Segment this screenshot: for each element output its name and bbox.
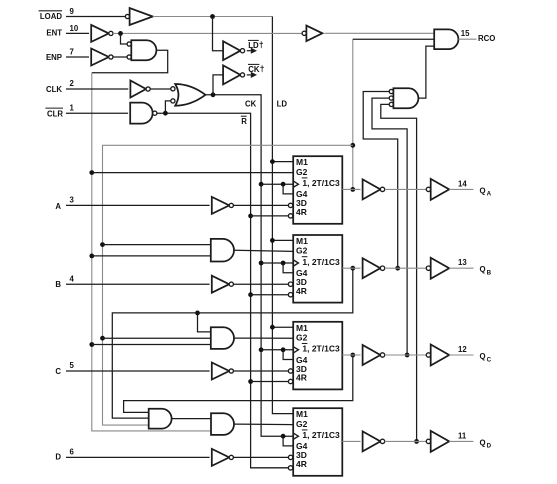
wire QB feedback xyxy=(112,268,352,418)
wire C input xyxy=(66,370,210,372)
wire FFA output xyxy=(342,188,360,190)
wire QD output xyxy=(449,440,473,442)
svg-text:4R: 4R xyxy=(296,373,307,383)
svg-text:G2: G2 xyxy=(296,419,308,429)
wire ENP to NAND xyxy=(113,56,127,58)
pin label G4 FFD xyxy=(296,441,308,451)
pin label 3D FFD xyxy=(296,450,307,460)
and gate U4 ENT*ENP (bubbled inputs) xyxy=(127,40,156,60)
buffer output QC (input bubble) xyxy=(426,345,449,366)
wire D input xyxy=(66,456,210,458)
pin label clock 1,2T/1C3 FFA xyxy=(294,178,340,188)
junction QA node xyxy=(350,187,355,192)
wire QC internal xyxy=(385,354,427,356)
wire R to 4R FFB xyxy=(251,294,289,296)
wire clock branch to G4 FFB xyxy=(283,263,293,273)
svg-text:6: 6 xyxy=(70,448,75,457)
wire R net xyxy=(157,113,288,468)
junction LD FFC xyxy=(270,325,275,330)
label CK-dagger xyxy=(248,64,265,74)
inverter data C xyxy=(212,363,234,380)
wire QA to U14 xyxy=(103,337,211,339)
junction T to AND QC xyxy=(89,342,94,347)
svg-text:, 2T/1C3: , 2T/1C3 xyxy=(307,257,340,267)
svg-text:LOAD: LOAD xyxy=(40,12,62,21)
bubble 4R FFC xyxy=(288,379,292,383)
wire B to 3D xyxy=(233,283,288,285)
svg-text:M1: M1 xyxy=(296,409,308,419)
pin 2 xyxy=(70,79,75,88)
junction R to 4R FFC xyxy=(248,379,253,384)
wire A to 3D xyxy=(233,204,288,206)
wire LD to M1 FFA xyxy=(272,161,293,163)
inverter U5 CLK xyxy=(130,81,150,98)
inverter internal QB xyxy=(363,258,385,278)
inverter U2 ENT xyxy=(91,25,113,42)
pin label G4 FFC xyxy=(296,355,308,365)
svg-text:B: B xyxy=(487,270,492,277)
pin label G4 FFB xyxy=(296,268,308,278)
svg-text:†: † xyxy=(260,64,265,74)
pin label clock 1,2T/1C3 FFC xyxy=(294,344,340,354)
junction T to G2 FFA xyxy=(89,170,94,175)
pin label G2 FFD xyxy=(296,419,308,429)
svg-text:5: 5 xyxy=(70,361,75,370)
wire decode input QC xyxy=(372,98,407,355)
label QA xyxy=(480,186,492,197)
junction CK to CK-dagger xyxy=(211,92,216,97)
label C xyxy=(55,367,61,376)
inverter data D xyxy=(212,449,234,466)
label ENP xyxy=(46,53,62,62)
wire LD to M1 FFB xyxy=(272,239,293,241)
inverter internal QD xyxy=(363,431,385,451)
junction QA to AND QC xyxy=(100,336,105,341)
svg-text:14: 14 xyxy=(458,179,467,188)
svg-text:ENT: ENT xyxy=(46,29,62,38)
wire LOAD input xyxy=(66,16,125,18)
buffer output QD (input bubble) xyxy=(426,431,449,452)
nand gate U6 CLR xyxy=(130,103,157,124)
wire clock branch to G4 FFC xyxy=(283,350,293,360)
svg-text:4: 4 xyxy=(70,274,75,283)
and gate U13 T*QA (for FFB) xyxy=(211,239,234,262)
svg-text:4R: 4R xyxy=(296,286,307,296)
inverter U9 CK-dagger xyxy=(223,65,244,84)
pin label 4R FFA xyxy=(296,207,307,217)
wire R to 4R FFA xyxy=(251,215,289,217)
pin 12 xyxy=(458,345,467,354)
svg-text:M1: M1 xyxy=(296,236,308,246)
wire QC feedback xyxy=(124,355,353,412)
svg-text:LD: LD xyxy=(248,41,259,50)
svg-text:R: R xyxy=(241,117,247,126)
bubble 3D FFD xyxy=(288,455,292,459)
wire R to 4R FFC xyxy=(251,381,289,383)
bubble 3D FFC xyxy=(288,369,292,373)
pin 3 xyxy=(70,196,75,205)
svg-text:7: 7 xyxy=(70,47,74,56)
pin label G2 FFA xyxy=(296,167,308,177)
wire ENT to RCO gate xyxy=(325,32,435,34)
junction clock/G4 FFD xyxy=(281,434,286,439)
label R net (active low) xyxy=(241,116,247,126)
wire U16 to G2 FFD xyxy=(234,423,293,426)
junction CK to FFC xyxy=(259,347,264,352)
and gate U11 RCO decode (bubbled inputs) xyxy=(389,88,418,108)
wire decode out to RCO gate xyxy=(418,46,434,98)
bubble 3D FFA xyxy=(288,203,292,207)
svg-text:LD: LD xyxy=(277,100,288,109)
junction QB to decode xyxy=(395,266,400,271)
inverter internal QC xyxy=(363,345,385,365)
inverter internal QA xyxy=(363,179,385,199)
wire LD vertical xyxy=(272,17,293,414)
wire QA to U13 xyxy=(103,244,211,246)
pin label M1 FFB xyxy=(296,236,308,246)
pin label M1 FFA xyxy=(296,157,308,167)
wire decode input QB xyxy=(363,92,398,269)
pin 9 xyxy=(70,7,75,16)
junction CK to FFB xyxy=(259,261,264,266)
or gate U7 clock (bubbled inputs) xyxy=(171,84,206,106)
wire B input xyxy=(66,283,210,285)
wire FFD output xyxy=(342,440,360,442)
junction R to 4R FFA xyxy=(248,214,253,219)
arrow CK-dagger output xyxy=(247,72,257,78)
wire CLK inv to OR xyxy=(150,88,171,90)
wire CK to clock FFB xyxy=(261,262,293,264)
svg-text:G2: G2 xyxy=(296,246,308,256)
wire FFB output xyxy=(342,267,360,269)
svg-text:B: B xyxy=(55,280,61,289)
wire U15 to U16 xyxy=(172,418,211,420)
junction QC to decode xyxy=(405,353,410,358)
wire ENT input xyxy=(66,32,89,34)
bubble 4R FFA xyxy=(288,214,292,218)
wire QA to RCO xyxy=(353,39,434,189)
junction R node xyxy=(163,111,168,116)
svg-text:10: 10 xyxy=(70,24,79,33)
pin 15 xyxy=(461,29,470,38)
pin label M1 FFD xyxy=(296,409,308,419)
and gate U15 QA*QB*QC xyxy=(149,409,172,429)
pin label G2 FFB xyxy=(296,246,308,256)
svg-text:Q: Q xyxy=(480,352,486,361)
pin label 4R FFB xyxy=(296,286,307,296)
wire CK-dagger input xyxy=(213,75,223,95)
wire clock branch to G4 FFA xyxy=(283,184,293,194)
wire CLK input xyxy=(66,88,128,90)
junction QB feedback xyxy=(350,266,355,271)
pin label G4 FFA xyxy=(296,189,308,199)
wire A input xyxy=(66,204,210,206)
pin label 4R FFD xyxy=(296,459,307,469)
and gate U12 RCO xyxy=(434,29,458,49)
svg-text:2: 2 xyxy=(70,79,75,88)
wire QB to U14 xyxy=(198,313,211,332)
junction QA feedback xyxy=(350,143,355,148)
wire QB internal xyxy=(385,267,427,269)
label D xyxy=(55,453,61,462)
pin label 3D FFB xyxy=(296,277,307,287)
arrow LD-dagger output xyxy=(247,48,257,54)
svg-text:RCO: RCO xyxy=(478,34,495,43)
svg-text:, 2T/1C3: , 2T/1C3 xyxy=(307,344,340,354)
svg-text:M1: M1 xyxy=(296,323,308,333)
pin label M1 FFC xyxy=(296,323,308,333)
and gate U14 T*QA*QB (for FFC) xyxy=(211,327,234,349)
inverter data A xyxy=(212,197,234,214)
wire ENT long xyxy=(113,32,302,34)
pin 6 xyxy=(70,448,75,457)
wire clock branch to G4 FFD xyxy=(283,436,293,446)
svg-text:1: 1 xyxy=(70,103,75,112)
pin label 3D FFA xyxy=(296,198,307,208)
wire LD-dagger input xyxy=(213,17,224,51)
svg-text:M1: M1 xyxy=(296,157,308,167)
svg-text:ENP: ENP xyxy=(46,53,62,62)
label CK net xyxy=(245,100,257,109)
svg-text:Q: Q xyxy=(480,438,486,447)
junction ENT node xyxy=(118,31,123,36)
svg-text:3: 3 xyxy=(70,196,75,205)
pin 10 xyxy=(70,24,79,33)
wire T to U14 xyxy=(92,344,211,346)
junction QB branch xyxy=(195,311,200,316)
svg-text:15: 15 xyxy=(461,29,470,38)
wire LD to M1 FFC xyxy=(272,326,293,328)
pin 7 xyxy=(70,47,74,56)
label CLK xyxy=(46,85,62,94)
svg-text:†: † xyxy=(259,40,264,50)
label QC xyxy=(480,352,492,363)
junction CK to FFA xyxy=(259,182,264,187)
wire QA feedback xyxy=(103,145,353,425)
junction QA to AND QB xyxy=(100,242,105,247)
pin 14 xyxy=(458,179,467,188)
wire T to G2 FFA xyxy=(92,172,293,174)
label LD-dagger xyxy=(248,40,264,50)
svg-text:D: D xyxy=(487,443,492,450)
junction T to AND QB xyxy=(89,254,94,259)
svg-text:, 2T/1C3: , 2T/1C3 xyxy=(307,430,340,440)
buffer output QA (input bubble) xyxy=(426,179,449,200)
wire FFC output xyxy=(342,354,360,356)
inverter U3 ENP xyxy=(91,49,113,66)
pin 11 xyxy=(458,431,467,440)
label ENT xyxy=(46,29,62,38)
svg-text:C: C xyxy=(55,367,61,376)
svg-text:Q: Q xyxy=(480,265,486,274)
label QB xyxy=(480,265,492,276)
pin 4 xyxy=(70,274,75,283)
buffer output QB (input bubble) xyxy=(426,258,449,279)
junction clock/G4 FFC xyxy=(281,347,286,352)
svg-text:CLR: CLR xyxy=(47,109,63,118)
wire CK net xyxy=(206,95,294,436)
svg-text:4R: 4R xyxy=(296,459,307,469)
pin 13 xyxy=(458,258,467,267)
svg-text:, 2T/1C3: , 2T/1C3 xyxy=(307,178,340,188)
svg-text:13: 13 xyxy=(458,258,467,267)
svg-text:12: 12 xyxy=(458,345,467,354)
pin label clock 1,2T/1C3 FFD xyxy=(294,430,340,440)
svg-text:CK: CK xyxy=(248,65,260,74)
wire QC output xyxy=(449,354,473,356)
label LD net xyxy=(277,100,288,109)
wire QD internal xyxy=(385,440,427,442)
wire CK to clock FFA xyxy=(261,183,293,185)
wire CLR to OR input xyxy=(165,101,170,113)
pin label 3D FFC xyxy=(296,364,307,374)
inverter U8 LD-dagger xyxy=(223,41,244,60)
wire C to 3D xyxy=(233,370,288,372)
wire QA output xyxy=(449,188,473,190)
flip-flop FFA (stage QA) xyxy=(293,156,342,224)
label RCO xyxy=(478,34,495,43)
wire CK to clock FFC xyxy=(261,349,293,351)
label A xyxy=(55,202,61,211)
label QD xyxy=(480,438,492,449)
junction QC feedback xyxy=(350,353,355,358)
junction R to 4R FFB xyxy=(248,292,253,297)
junction QD to decode xyxy=(414,439,419,444)
svg-text:A: A xyxy=(55,202,61,211)
svg-text:11: 11 xyxy=(458,431,467,440)
wire ENT to NAND xyxy=(121,33,128,44)
wire LOAD to LD net xyxy=(153,16,273,18)
wire U13 to G2 FFB xyxy=(234,250,293,251)
wire RCO output xyxy=(458,38,476,40)
junction LD FFA xyxy=(270,159,275,164)
inverter U10 ENT buffer (input bubble) xyxy=(302,26,322,42)
junction LD FFB xyxy=(270,238,275,243)
wire CLR input xyxy=(66,112,128,114)
svg-text:Q: Q xyxy=(480,186,486,195)
pin label clock 1,2T/1C3 FFB xyxy=(294,257,340,267)
svg-text:4R: 4R xyxy=(296,207,307,217)
wire ENP input xyxy=(66,56,89,58)
label LOAD (active low) xyxy=(39,11,63,21)
svg-text:G2: G2 xyxy=(296,332,308,342)
wire QB output xyxy=(449,267,473,269)
wire T net (count enable) xyxy=(92,50,211,431)
svg-text:CLK: CLK xyxy=(46,85,62,94)
svg-text:9: 9 xyxy=(70,7,75,16)
flip-flop FFC (stage QC) xyxy=(293,322,342,390)
wire decode input QD xyxy=(381,104,417,441)
wire R to 4R FFD xyxy=(251,467,289,469)
pin label G2 FFC xyxy=(296,332,308,342)
flip-flop FFB (stage QB) xyxy=(293,235,342,303)
svg-text:A: A xyxy=(487,191,492,198)
flip-flop FFD (stage QD) xyxy=(293,408,342,476)
svg-text:CK: CK xyxy=(245,100,257,109)
svg-text:G2: G2 xyxy=(296,167,308,177)
label B xyxy=(55,280,61,289)
pin 5 xyxy=(70,361,75,370)
junction clock/G4 FFA xyxy=(281,182,286,187)
wire QA internal xyxy=(385,188,427,190)
bubble 3D FFB xyxy=(288,282,292,286)
wire D to 3D xyxy=(233,456,288,458)
wire U14 to G2 FFC xyxy=(234,337,293,339)
pin label 4R FFC xyxy=(296,373,307,383)
wire T to U13 xyxy=(92,255,211,257)
junction clock/G4 FFB xyxy=(281,261,286,266)
junction LOAD/LD-dagger xyxy=(210,14,215,19)
bubble 4R FFD xyxy=(288,466,292,470)
pin 1 xyxy=(70,103,75,112)
inverter data B xyxy=(212,276,234,293)
and gate U16 T*QA*QB*QC (for FFD) xyxy=(211,413,234,435)
svg-text:C: C xyxy=(487,356,492,363)
svg-text:D: D xyxy=(55,453,61,462)
bubble 4R FFB xyxy=(288,293,292,297)
label CLR (active low) xyxy=(45,108,63,118)
inverter U1 LOAD (input bubble) xyxy=(125,8,152,25)
